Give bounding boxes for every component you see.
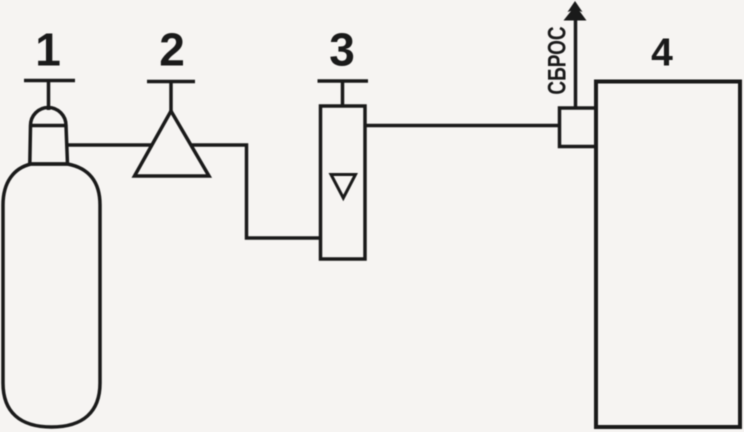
svg-text:4: 4	[651, 32, 673, 75]
rotameter 3 tube	[321, 106, 366, 259]
chamber 4	[596, 82, 740, 428]
chamber 4 inlet port	[560, 108, 597, 147]
svg-text:2: 2	[159, 24, 185, 76]
cylinder 1 neck	[30, 107, 68, 164]
vent pipe	[574, 10, 578, 108]
rotameter 3 handle	[318, 81, 369, 107]
wire cylinder to valve 2	[66, 143, 153, 147]
svg-text:3: 3	[329, 24, 355, 76]
wire rotameter 3 to chamber 4	[365, 124, 560, 128]
valve 2 handle	[147, 82, 195, 114]
svg-text:1: 1	[35, 24, 61, 76]
svg-text:СБРОС: СБРОС	[543, 26, 571, 94]
rotameter 3 float	[331, 175, 356, 199]
valve 2 triangle	[135, 111, 210, 176]
valve handle of cylinder 1	[24, 81, 75, 111]
cylinder 1 body	[3, 164, 100, 427]
wire valve 2 to rotameter 3	[190, 145, 320, 238]
vent arrowhead	[564, 1, 587, 21]
